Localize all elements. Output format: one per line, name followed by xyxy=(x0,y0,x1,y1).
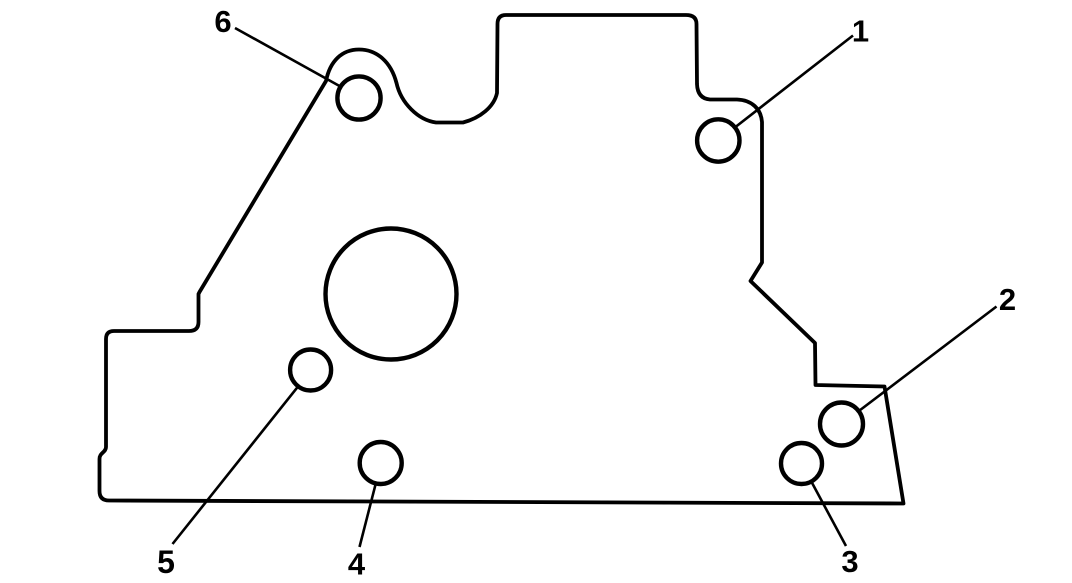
hole 3 xyxy=(781,443,822,484)
svg-text:6: 6 xyxy=(214,4,231,39)
leader 5 xyxy=(173,386,299,544)
part outline xyxy=(100,15,904,504)
leader 3 xyxy=(811,482,846,547)
hole 2 xyxy=(820,403,863,446)
hole 4 xyxy=(360,442,402,484)
leader 2 xyxy=(859,307,997,412)
svg-text:1: 1 xyxy=(852,14,869,49)
large circle xyxy=(326,229,457,360)
hole 5 xyxy=(290,350,331,391)
svg-text:4: 4 xyxy=(348,547,366,579)
leader 1 xyxy=(735,36,853,128)
svg-text:2: 2 xyxy=(999,282,1016,317)
svg-text:5: 5 xyxy=(157,544,175,578)
leader 4 xyxy=(360,483,376,547)
svg-text:3: 3 xyxy=(841,544,858,578)
leader 6 xyxy=(235,28,341,87)
hole 6 xyxy=(337,76,380,119)
hole 1 xyxy=(697,119,739,161)
